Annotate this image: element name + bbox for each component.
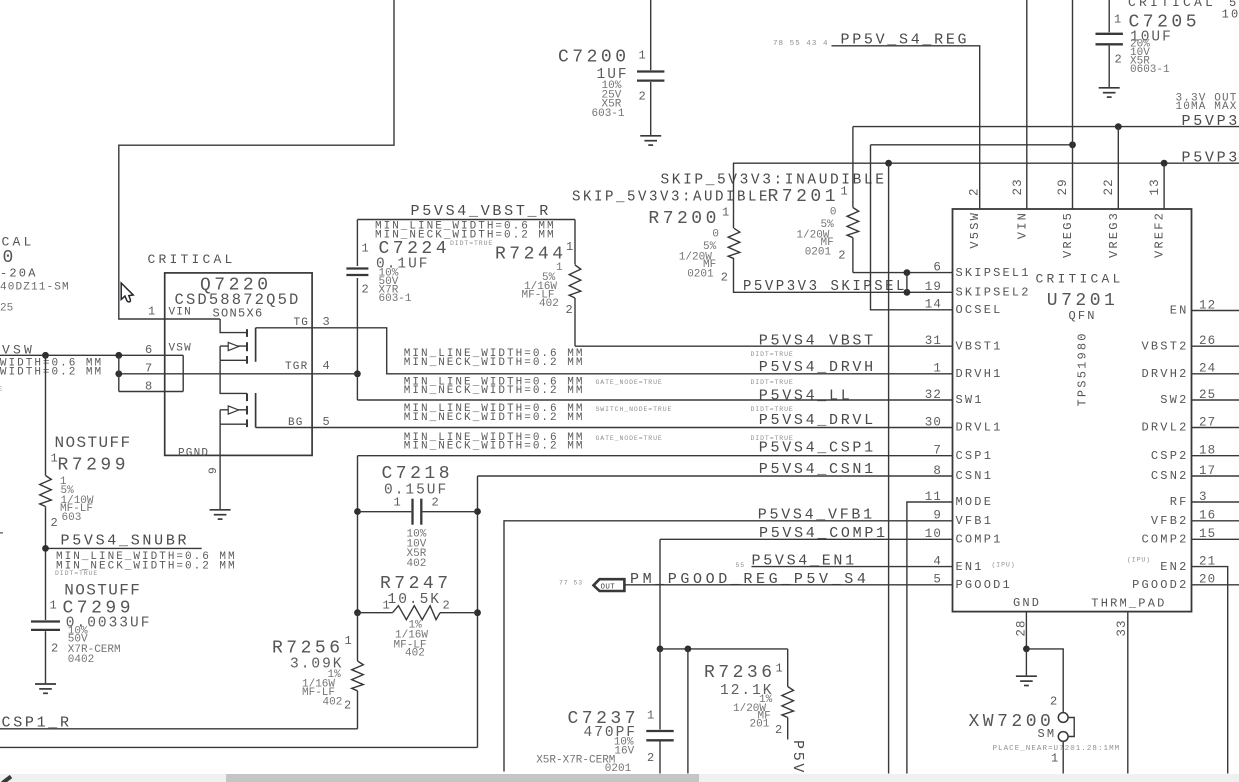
wire pin7/TGR row xyxy=(115,370,357,377)
svg-text:2: 2 xyxy=(968,187,982,196)
svg-text:10MA MAX: 10MA MAX xyxy=(1176,101,1238,113)
wire EN1 xyxy=(752,566,953,568)
ground PGND of Q7220 xyxy=(210,424,231,519)
svg-text:PGOOD1: PGOOD1 xyxy=(956,578,1012,592)
svg-text:DIDT=TRUE: DIDT=TRUE xyxy=(751,406,794,413)
svg-text:QFN: QFN xyxy=(1069,309,1097,323)
svg-text:0201: 0201 xyxy=(605,763,632,775)
svg-text:2: 2 xyxy=(362,283,369,297)
svg-text:C7218: C7218 xyxy=(382,464,454,484)
svg-text:0201: 0201 xyxy=(687,268,714,280)
resistor R7247 xyxy=(358,574,478,660)
net CSP1_R wire (cut) xyxy=(0,715,358,732)
svg-text:11: 11 xyxy=(925,490,942,504)
svg-text:DIDT=TRUE: DIDT=TRUE xyxy=(751,379,794,386)
svg-text:CSP1_R: CSP1_R xyxy=(2,715,72,732)
wire TG to DRVH1 (net P5VS4_DRVH) xyxy=(256,328,953,374)
svg-text:4: 4 xyxy=(323,359,330,373)
svg-text:6: 6 xyxy=(933,260,942,274)
svg-text:10: 10 xyxy=(1222,8,1239,22)
wire VBST (net P5VS4_VBST) xyxy=(575,345,953,347)
net VSW / wire to Q7220 pin 6 xyxy=(0,343,183,359)
wire SKIPSEL1 xyxy=(853,269,953,276)
scrollbar track xyxy=(0,774,1239,782)
svg-text:1: 1 xyxy=(722,206,729,220)
wire LL (net P5VS4_LL) xyxy=(357,399,952,401)
svg-text:VBST1: VBST1 xyxy=(956,339,1003,353)
wire CSN1_R bottom to left edge xyxy=(0,746,478,748)
label MIN widths row 4 xyxy=(404,432,585,453)
svg-text:GATE_NODE=TRUE: GATE_NODE=TRUE xyxy=(596,435,663,442)
svg-text:402: 402 xyxy=(405,648,425,660)
label MIN widths row 2 xyxy=(404,376,585,397)
svg-text:MODE: MODE xyxy=(956,495,994,509)
svg-text:2: 2 xyxy=(639,90,646,104)
wire COMP1 down to C7237 xyxy=(657,539,664,652)
svg-text:1: 1 xyxy=(345,634,352,648)
svg-text:1: 1 xyxy=(566,240,573,254)
svg-text:2: 2 xyxy=(1115,53,1122,67)
svg-text:1: 1 xyxy=(556,262,563,274)
svg-text:0402: 0402 xyxy=(68,654,94,666)
svg-text:PGOOD2: PGOOD2 xyxy=(1132,578,1188,592)
svg-text:COMP1: COMP1 xyxy=(956,533,1003,547)
wire VSW tie bars xyxy=(119,355,183,391)
wire C7224 pin2 down to LL, TGR junction xyxy=(354,278,361,400)
svg-text:2: 2 xyxy=(344,699,351,713)
wire VFB2 xyxy=(1192,520,1239,522)
U7201 bottom pin labels xyxy=(1013,596,1167,636)
wire EN pin 12 xyxy=(1192,310,1239,312)
svg-text:3: 3 xyxy=(323,315,330,329)
wire PGOOD1 xyxy=(624,584,953,586)
wire PP5V_S4_REG to V5SW pin 2 xyxy=(832,46,980,209)
net label P5VS4_EN1 xyxy=(736,553,857,570)
net P5VS4_SNUBR xyxy=(42,533,237,578)
svg-text:23: 23 xyxy=(1011,178,1025,195)
svg-text:32: 32 xyxy=(925,388,942,402)
svg-text:9: 9 xyxy=(208,466,220,474)
svg-text:TG: TG xyxy=(294,317,310,329)
Q7220 internal FET low-side xyxy=(220,374,256,428)
svg-text:P5VP3V: P5VP3V xyxy=(1182,113,1239,130)
svg-text:1: 1 xyxy=(1051,751,1060,765)
transistor Q7220 CSD58872Q5D xyxy=(145,273,330,474)
svg-text:R7247: R7247 xyxy=(380,574,452,594)
svg-text:THRM_PAD: THRM_PAD xyxy=(1091,597,1166,611)
svg-text:P5VP3V: P5VP3V xyxy=(1182,150,1239,167)
svg-text:VREG5: VREG5 xyxy=(1061,211,1075,258)
mouse cursor xyxy=(121,283,133,302)
svg-text:(IPU): (IPU) xyxy=(992,561,1016,568)
ground at U7201 GND xyxy=(1016,649,1037,686)
svg-text:P5VS4_DRVH: P5VS4_DRVH xyxy=(759,359,876,376)
svg-text:SKIPSEL2: SKIPSEL2 xyxy=(956,286,1031,300)
svg-text:603-1: 603-1 xyxy=(379,293,412,305)
wire VIN from top edge to Q7220 pin 1 xyxy=(119,0,394,319)
wire CSP2 xyxy=(1192,455,1239,457)
resistor R7200 xyxy=(648,163,739,292)
svg-text:DRVL2: DRVL2 xyxy=(1141,421,1188,435)
svg-text:2: 2 xyxy=(1050,694,1059,708)
net P5VP3V3 rail 1 (top) xyxy=(853,113,1239,130)
svg-text:0: 0 xyxy=(712,229,719,241)
svg-text:MIN_NECK_WIDTH=0.2 MM: MIN_NECK_WIDTH=0.2 MM xyxy=(404,412,585,424)
svg-text:77 53: 77 53 xyxy=(559,579,583,586)
svg-text:P5VS4_DRVL: P5VS4_DRVL xyxy=(759,412,876,429)
svg-text:COMP2: COMP2 xyxy=(1141,533,1188,547)
capacitor C7224 xyxy=(346,220,450,305)
svg-text:CRITICAL: CRITICAL xyxy=(148,252,236,267)
svg-text:GATE_NODE=TRUE: GATE_NODE=TRUE xyxy=(596,379,663,386)
svg-text:CSP1: CSP1 xyxy=(956,449,994,463)
svg-text:(IPU): (IPU) xyxy=(1127,557,1151,564)
svg-text:1: 1 xyxy=(841,185,848,199)
svg-text:CSN2: CSN2 xyxy=(1151,469,1189,483)
svg-text:402: 402 xyxy=(323,696,343,708)
svg-text:603: 603 xyxy=(62,512,82,524)
svg-text:DRVL1: DRVL1 xyxy=(956,421,1003,435)
wire long vertical x888 xyxy=(888,163,890,773)
svg-text:1: 1 xyxy=(362,242,369,256)
wire GND to XW7200 pin 2 xyxy=(1026,649,1063,713)
svg-text:VFB1: VFB1 xyxy=(956,514,994,528)
svg-text:16V: 16V xyxy=(614,745,634,757)
svg-text:SON5X6: SON5X6 xyxy=(213,307,264,321)
label MIN widths VSW (cut) xyxy=(0,358,103,379)
svg-text:33: 33 xyxy=(1115,619,1129,636)
svg-text:CRITICAL: CRITICAL xyxy=(1128,0,1216,10)
svg-text:DRVH2: DRVH2 xyxy=(1141,367,1188,381)
resistor R7299 (NOSTUFF) xyxy=(40,355,132,620)
U7201 left pin numbers xyxy=(925,260,942,586)
wire COMP1 branch horizontal xyxy=(660,646,788,653)
wire x688 down xyxy=(687,649,689,774)
svg-text:PLACE_NEAR=U7201.28:1MM: PLACE_NEAR=U7201.28:1MM xyxy=(993,745,1121,753)
wire DRVL2 xyxy=(1192,427,1239,429)
wire EN2 down xyxy=(1192,567,1228,774)
svg-text:VIN: VIN xyxy=(1015,211,1029,239)
svg-text:5: 5 xyxy=(933,573,942,587)
svg-text:CSP2: CSP2 xyxy=(1151,449,1189,463)
svg-text:0: 0 xyxy=(3,248,17,268)
svg-text:402: 402 xyxy=(539,298,559,310)
svg-text:SW2: SW2 xyxy=(1160,393,1188,407)
capacitor C7299 (NOSTUFF) xyxy=(31,582,151,694)
svg-text:1: 1 xyxy=(776,662,783,676)
svg-text:1: 1 xyxy=(647,708,654,722)
U7201 left pin names xyxy=(956,266,1031,592)
svg-text:PM_PGOOD_REG_P5V_S4: PM_PGOOD_REG_P5V_S4 xyxy=(630,571,869,588)
capacitor C7218 xyxy=(358,464,478,570)
svg-text:1: 1 xyxy=(148,305,155,319)
svg-text:R7236: R7236 xyxy=(704,663,776,683)
svg-text:EN1: EN1 xyxy=(956,560,984,574)
svg-text:R7201: R7201 xyxy=(768,187,840,207)
capacitor C7200 xyxy=(558,0,664,145)
svg-text:1: 1 xyxy=(1114,12,1121,26)
wire VREF2 stub xyxy=(1163,163,1165,209)
svg-text:OUT: OUT xyxy=(601,583,616,591)
svg-text:10: 10 xyxy=(925,527,942,541)
wire C7218 box right vertical xyxy=(474,476,481,747)
svg-text:EN: EN xyxy=(1170,304,1189,318)
scrollbar thumb xyxy=(226,774,699,782)
svg-text:-20A: -20A xyxy=(0,266,38,280)
wire XW7200 pin1 down xyxy=(1062,741,1064,773)
svg-text:PGND: PGND xyxy=(178,447,209,459)
svg-text:MIN_NECK_WIDTH=0.2 MM: MIN_NECK_WIDTH=0.2 MM xyxy=(0,366,103,378)
net PP5V_S4_REG xyxy=(773,32,969,49)
svg-text:0603-1: 0603-1 xyxy=(1130,64,1170,76)
svg-text:2: 2 xyxy=(647,751,654,765)
svg-text:1: 1 xyxy=(639,49,646,63)
wire COMP2 xyxy=(1192,538,1239,540)
svg-text:SKIPSEL1: SKIPSEL1 xyxy=(956,266,1031,280)
svg-text:1: 1 xyxy=(50,599,57,613)
left edge cut labels xyxy=(0,235,70,540)
wire BG to DRVL1 (net P5VS4_DRVL) xyxy=(256,427,953,429)
svg-text:201: 201 xyxy=(750,719,770,731)
svg-text:SKIP_5V3V3:AUDIBLE: SKIP_5V3V3:AUDIBLE xyxy=(572,189,770,206)
connector XW7200 xyxy=(969,694,1121,765)
svg-text:VREF2: VREF2 xyxy=(1153,211,1167,258)
op-amp/controller U7201 TPS51980 xyxy=(953,209,1192,612)
wire SW2 xyxy=(1192,399,1239,401)
wire MODE from vertical xyxy=(907,502,953,774)
svg-text:2: 2 xyxy=(721,271,728,285)
svg-text:DIDT=TRUE: DIDT=TRUE xyxy=(0,386,3,393)
svg-text:1: 1 xyxy=(394,496,401,510)
svg-text:DIDT=TRUE: DIDT=TRUE xyxy=(450,240,493,247)
svg-text:VREG3: VREG3 xyxy=(1107,211,1121,258)
svg-text:19: 19 xyxy=(925,280,942,294)
wire CSN2 xyxy=(1192,475,1239,477)
wire RF xyxy=(1192,501,1239,503)
svg-text:SWITCH_NODE=TRUE: SWITCH_NODE=TRUE xyxy=(596,406,673,413)
svg-text:VSW: VSW xyxy=(2,343,35,358)
resistor R7256 xyxy=(272,613,363,729)
wire CSP1 (net P5VS4_CSP1) xyxy=(358,455,953,457)
svg-text:VSW: VSW xyxy=(169,343,192,355)
svg-text:VBST2: VBST2 xyxy=(1141,339,1188,353)
svg-text:DIDT=TRUE: DIDT=TRUE xyxy=(751,435,794,442)
svg-text:13: 13 xyxy=(1148,178,1162,195)
svg-text:P5VS4_LL: P5VS4_LL xyxy=(759,387,853,404)
svg-text:VFB2: VFB2 xyxy=(1151,514,1189,528)
wire VREG3 stub xyxy=(1117,127,1119,209)
wire VBST2 xyxy=(1192,345,1239,347)
svg-text:U7201: U7201 xyxy=(1047,291,1119,311)
U7201 right pin names xyxy=(1127,304,1189,592)
wire COMP1 (net P5VS4_COMP1) xyxy=(660,538,953,540)
svg-text:MIN_NECK_WIDTH=0.2 MM: MIN_NECK_WIDTH=0.2 MM xyxy=(404,357,585,369)
svg-text:R7200: R7200 xyxy=(648,209,720,229)
svg-text:CRITICAL: CRITICAL xyxy=(1036,271,1124,286)
svg-text:SM: SM xyxy=(1038,727,1057,741)
svg-text:2: 2 xyxy=(775,723,782,737)
svg-text:MIN_NECK_WIDTH=0.2 MM: MIN_NECK_WIDTH=0.2 MM xyxy=(404,441,585,453)
svg-text:7: 7 xyxy=(933,444,942,458)
svg-text:22: 22 xyxy=(1102,178,1116,195)
svg-text:2: 2 xyxy=(566,303,573,317)
svg-text:10.5K: 10.5K xyxy=(388,592,442,608)
svg-text:P5VS4_SNUBR: P5VS4_SNUBR xyxy=(61,533,190,550)
svg-text:2: 2 xyxy=(443,599,450,613)
resistor R7244 xyxy=(495,220,581,347)
svg-text:X5R-X7R-CERM: X5R-X7R-CERM xyxy=(536,754,615,766)
svg-text:DIDT=TRUE: DIDT=TRUE xyxy=(55,570,98,577)
svg-text:2: 2 xyxy=(432,496,439,510)
svg-text:SW1: SW1 xyxy=(956,393,984,407)
svg-text:P5VP3V3 SKIPSEL: P5VP3V3 SKIPSEL xyxy=(743,278,907,295)
svg-text:2: 2 xyxy=(51,642,58,656)
svg-text:R7256: R7256 xyxy=(272,639,344,659)
svg-text:0: 0 xyxy=(830,207,837,219)
svg-text:TPS51980: TPS51980 xyxy=(1076,331,1090,406)
U7201 top pin numbers rotated xyxy=(968,178,1163,196)
svg-text:78 55 43 4: 78 55 43 4 xyxy=(773,40,829,48)
wire GND pin 28 xyxy=(1023,612,1030,653)
label 3.3V OUT / 10MA MAX xyxy=(1176,92,1238,113)
wire C7218 box left vertical xyxy=(354,456,361,616)
wire VREG5 stub from top edge xyxy=(1072,0,1074,209)
capacitor C7205 xyxy=(1096,0,1201,97)
svg-text:DIDT=TRUE: DIDT=TRUE xyxy=(751,351,794,358)
svg-text:RF: RF xyxy=(1170,495,1189,509)
label MIN widths row 3 xyxy=(404,403,585,424)
wire VIN stub from top edge xyxy=(1026,0,1028,209)
wire OCSEL xyxy=(871,145,953,310)
wire PGOOD2 xyxy=(1192,584,1239,586)
Q7220 internal FET high-side xyxy=(220,319,256,374)
svg-text:14: 14 xyxy=(925,298,942,312)
svg-text:30: 30 xyxy=(925,415,942,429)
svg-text:R7299: R7299 xyxy=(58,455,130,475)
svg-text:1: 1 xyxy=(933,362,942,376)
svg-text:EN2: EN2 xyxy=(1160,560,1188,574)
svg-text:25: 25 xyxy=(0,303,13,315)
wire CSN1 (net P5VS4_CSN1) xyxy=(478,475,953,477)
wire DRVH2 xyxy=(1192,373,1239,375)
net P5VP3V3_SKIPSEL / wire SKIPSEL2 xyxy=(733,278,953,295)
wire VFB1 (net P5VS4_VFB1) xyxy=(504,521,953,772)
svg-text:C7200: C7200 xyxy=(558,48,630,68)
svg-text:0201: 0201 xyxy=(805,246,832,258)
svg-text:2: 2 xyxy=(51,516,58,530)
svg-text:402: 402 xyxy=(407,558,427,570)
U7201 right pin numbers xyxy=(1199,298,1216,586)
wire pin8 row xyxy=(119,391,183,393)
svg-text:31: 31 xyxy=(925,334,942,348)
resistor R7201 xyxy=(768,127,859,273)
wire tie SKIPSEL1-SKIPSEL2 xyxy=(906,273,908,293)
svg-text:P5VS4_VBST: P5VS4_VBST xyxy=(759,332,876,349)
svg-text:55: 55 xyxy=(736,562,746,569)
svg-text:GND: GND xyxy=(1013,596,1041,610)
capacitor C7237 xyxy=(536,649,674,775)
label MIN widths row 1 xyxy=(404,348,585,369)
svg-text:9: 9 xyxy=(933,509,942,523)
property labels DIDT/GATE/SWITCH xyxy=(596,351,794,442)
corner glyph xyxy=(3,777,12,782)
net rail 2 (to VREG5) xyxy=(871,141,1076,148)
svg-text:P5VS4_CSP1: P5VS4_CSP1 xyxy=(759,440,876,457)
svg-text:CSN1: CSN1 xyxy=(956,469,994,483)
resistor R7236 xyxy=(704,649,794,740)
svg-text:40DZ11-SM: 40DZ11-SM xyxy=(0,282,70,294)
svg-text:2: 2 xyxy=(838,249,845,263)
svg-text:DRVH1: DRVH1 xyxy=(956,367,1003,381)
net P5VS4_VBST_R xyxy=(357,203,575,247)
svg-text:NOSTUFF: NOSTUFF xyxy=(55,434,132,452)
svg-text:NOSTUFF: NOSTUFF xyxy=(64,582,141,600)
svg-text:1: 1 xyxy=(383,599,390,613)
svg-text:5: 5 xyxy=(323,415,330,429)
svg-text:OCSEL: OCSEL xyxy=(956,303,1003,317)
net P5VP3V3 rail 3 xyxy=(733,150,1239,167)
U7201 top pin names rotated xyxy=(968,211,1166,258)
svg-text:8: 8 xyxy=(933,464,942,478)
svg-text:P5VS4_VBST_R: P5VS4_VBST_R xyxy=(411,203,551,220)
svg-text:4: 4 xyxy=(933,554,942,568)
wire THRM_PAD pin 33 xyxy=(1127,612,1129,774)
net PM_PGOOD_REG_P5V_S4 with OUT flag xyxy=(559,571,869,591)
svg-text:TGR: TGR xyxy=(285,361,308,373)
svg-text:603-1: 603-1 xyxy=(592,108,625,120)
svg-text:VIN: VIN xyxy=(169,306,192,318)
svg-text:MIN_NECK_WIDTH=0.2 MM: MIN_NECK_WIDTH=0.2 MM xyxy=(404,385,585,397)
svg-text:1: 1 xyxy=(0,520,7,540)
svg-text:29: 29 xyxy=(1056,178,1070,195)
svg-text:V5SW: V5SW xyxy=(968,211,982,249)
